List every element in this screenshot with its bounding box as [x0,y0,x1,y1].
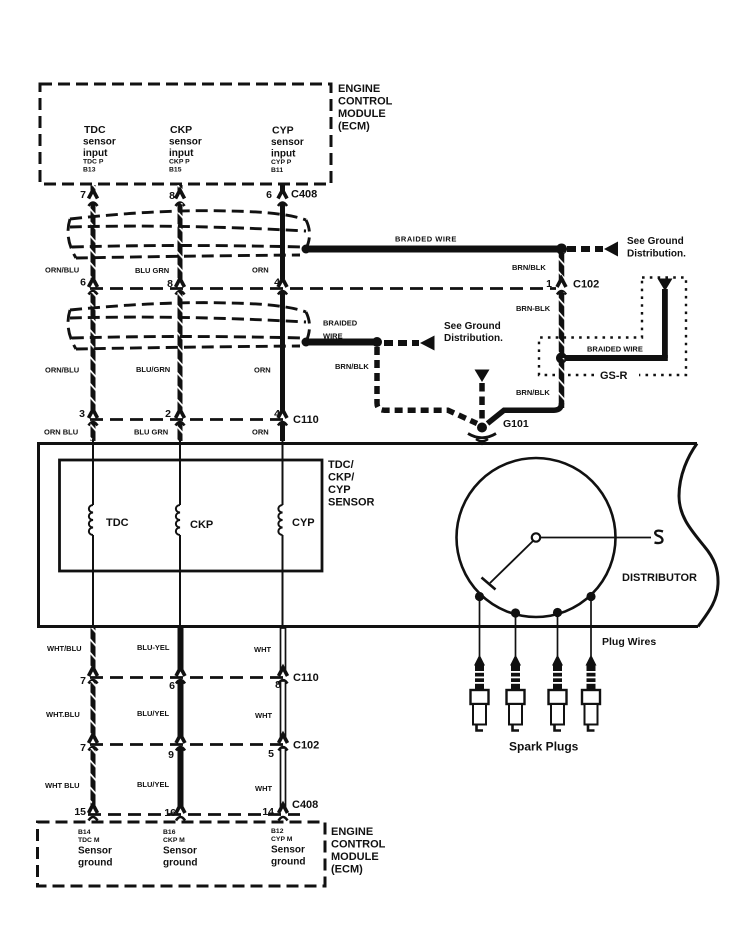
svg-text:C408: C408 [291,189,317,201]
ECM module box (top) [40,84,331,184]
ECM (bottom) name label [331,826,386,876]
pin 8 (C408 top) [169,190,175,202]
connector junction TDC wire at row2 [89,279,98,295]
connector C408 (bottom) label [292,799,318,811]
GS-R label [600,370,628,382]
distributor circle [457,458,616,617]
svg-text:Sensor: Sensor [163,846,197,857]
sensor assembly outer box with torn right edge [39,444,719,627]
pin 5 (C102 bottom) [268,748,274,760]
wire WHT C102 to C408 [281,748,286,806]
TDC coil label [106,517,129,529]
svg-text:(ECM): (ECM) [331,864,363,876]
plug wire 4 [590,599,592,656]
svg-text:C110: C110 [293,672,319,684]
svg-text:14: 14 [262,806,274,818]
svg-text:BLU/GRN: BLU/GRN [136,365,170,374]
svg-text:B12: B12 [271,828,284,835]
pin 1 (C102) [546,278,552,290]
svg-text:CKP: CKP [190,519,213,531]
connector C102 label [573,279,599,291]
svg-text:sensor: sensor [169,137,202,148]
wire color label WHT (row 2) [255,711,272,720]
Plug Wires label [602,636,656,648]
svg-text:C110: C110 [293,414,319,426]
dashed stub arrow to ground [479,383,485,425]
wire color label BRN-BLK (below C102) [516,304,551,313]
BRAIDED WIRE label (GS-R) [587,345,643,354]
wire color label WHT BLU (row 3) [45,781,80,790]
wire BLU/YEL C102 to C408 [178,748,184,806]
svg-text:3: 3 [79,408,85,420]
svg-text:CYP P: CYP P [271,159,292,166]
svg-text:TDC M: TDC M [78,837,100,844]
arrow to ground distribution 2 [420,336,435,351]
svg-text:CYP: CYP [272,125,294,137]
distributor cap terminal dot 1 [475,592,484,601]
shield2 junction dot [302,338,311,347]
ground G101 symbol [468,423,496,445]
wire CYP row2 to C110 [280,292,285,411]
wire CKP stub below ECM [178,185,183,191]
wire CYP into sensor assembly [280,423,285,441]
wire color label WHT (row 1) [254,645,271,654]
pin 6 (C110 bottom) [169,680,175,692]
rotor pickup tick [482,578,496,590]
pin 8 (C110 bottom) [275,679,281,691]
shield 2 (braided shield around sensor wires) [68,303,310,349]
svg-text:Distribution.: Distribution. [627,249,686,260]
connector junction BRN/BLK at C102 [557,279,566,295]
svg-text:TDC/: TDC/ [328,459,354,471]
svg-text:WHT.BLU: WHT.BLU [46,710,80,719]
braided wire GS-R horizontal [565,355,668,361]
svg-text:6: 6 [80,277,86,289]
svg-text:ORN: ORN [252,428,269,437]
svg-text:7: 7 [80,675,86,687]
arrow to ground distribution 1 [604,242,618,257]
wire CKP row2 to C110 [178,292,183,411]
wire color label ORN (row 2) [254,366,271,375]
CKP coil label [190,519,213,531]
svg-text:BRN/BLK: BRN/BLK [335,362,369,371]
TDC/CKP/CYP sensor inner box [60,460,323,571]
connector line C102 (dashed, row 2) [90,287,556,290]
connector junction WHT at C408 bottom [279,805,288,821]
svg-text:DISTRIBUTOR: DISTRIBUTOR [622,572,697,584]
svg-text:BLU/YEL: BLU/YEL [137,780,170,789]
connector junction TDC wire at C110 top [89,410,98,426]
svg-text:B16: B16 [163,829,176,836]
svg-text:CKP M: CKP M [163,837,185,844]
connector junction WHT/BLU at C110 bottom [89,668,98,684]
svg-text:BRN/BLK: BRN/BLK [516,388,550,397]
svg-text:CKP: CKP [170,124,192,136]
wire BLU/YEL below sensor box [178,628,184,669]
svg-text:WIRE: WIRE [323,332,343,341]
Spark Plugs label [509,740,579,754]
braided wire GS-R vertical [662,289,668,358]
dashed wire stub to ground distribution arrow 1 [567,246,603,252]
CYP sensor input pin CYP P B11 label [271,125,304,175]
wire BRN/BLK from C102 down to GS-R tap [559,292,565,356]
connector junction WHT at C102 bottom [279,735,288,751]
connector line C110 bottom (dashed) [90,676,289,679]
See Ground Distribution label 1 [627,236,686,260]
svg-text:input: input [83,148,108,159]
svg-text:ORN BLU: ORN BLU [44,428,78,437]
shield1 junction dot [302,245,311,254]
svg-text:B14: B14 [78,829,91,836]
connector C110 (bottom) label [293,672,319,684]
junction dot braided wire 1 [556,244,567,255]
wire color label BRN/BLK (left branch) [335,362,369,371]
connector junction CKP wire at C110 top [176,410,185,426]
svg-text:B15: B15 [169,167,182,174]
svg-text:Sensor: Sensor [271,845,305,856]
svg-text:C102: C102 [573,279,599,291]
svg-text:CONTROL: CONTROL [331,839,386,851]
svg-text:Distribution.: Distribution. [444,333,503,344]
wire WHT/BLU C102 to C408 [91,748,96,806]
svg-text:See Ground: See Ground [627,236,684,247]
pin 9 (C102 bottom) [168,749,174,761]
svg-text:MODULE: MODULE [338,108,386,120]
svg-text:CKP/: CKP/ [328,472,354,484]
pin 7 (C110 bottom) [80,675,86,687]
plug wire 1 [479,599,481,656]
wire color label ORN/BLU (row 2) [45,366,79,375]
svg-text:C102: C102 [293,740,319,752]
connector junction CKP wire at row2 [176,279,185,295]
connector junction CYP at C408 [278,190,287,206]
TDC sensor input pin TDC P B13 label [83,124,116,174]
svg-text:input: input [169,148,194,159]
svg-text:CYP: CYP [328,484,351,496]
svg-text:WHT: WHT [254,645,271,654]
distributor cap terminal dot 4 [586,592,595,601]
wire BRN/BLK right elbow to ground [488,403,562,424]
spark plug 4 [582,655,600,731]
pin 7 (C102 bottom) [80,742,86,754]
wire color label ORN (below C110) [252,428,269,437]
svg-text:6: 6 [169,680,175,692]
svg-text:7: 7 [80,189,86,201]
G101 label [503,418,529,430]
wire color label BLU/YEL (row 2) [137,709,170,718]
svg-text:B11: B11 [271,167,283,174]
svg-text:CKP P: CKP P [169,159,190,166]
wire color label ORN (row 1) [252,266,269,275]
distributor rotor arm (pickup) [490,541,534,584]
wire color label BRN/BLK (above C102) [512,263,546,272]
svg-text:15: 15 [74,806,86,818]
connector junction CKP at C408 [176,190,185,206]
svg-text:input: input [271,149,296,160]
svg-text:ORN: ORN [254,366,271,375]
pin B16 CKP M sensor ground label [163,829,197,869]
svg-text:B13: B13 [83,167,96,174]
svg-text:6: 6 [266,189,272,201]
svg-text:ORN/BLU: ORN/BLU [45,366,79,375]
svg-text:Spark Plugs: Spark Plugs [509,740,579,754]
distributor cap terminal dot 2 [511,608,520,617]
svg-text:ENGINE: ENGINE [338,83,380,95]
svg-text:See Ground: See Ground [444,321,501,332]
wire CYP C408 down [280,203,285,279]
distributor rotor pivot [532,533,540,541]
svg-text:SENSOR: SENSOR [328,497,375,509]
coil TDC [89,505,93,535]
pin 2 (C110 top row) [165,408,171,420]
svg-text:ENGINE: ENGINE [331,826,373,838]
wire TDC C408 to shield1 exit [91,203,96,279]
CKP sensor input pin CKP P B15 label [169,124,202,174]
wire color label BLU/YEL (row 3) [137,780,170,789]
BRAIDED WIRE label 1 [395,235,457,244]
svg-text:TDC: TDC [106,517,129,529]
pin 6 (C408 top) [266,189,272,201]
connector junction CYP wire at row2 [278,279,287,295]
wire BRN/BLK from braided1 down to C102 [559,252,565,280]
svg-text:BLU-YEL: BLU-YEL [137,643,170,652]
svg-text:CYP M: CYP M [271,836,293,843]
svg-text:TDC P: TDC P [83,159,104,166]
spark plug 3 [549,655,567,731]
wire TDC into sensor assembly [91,423,96,441]
wire TDC row2 to C110 [91,292,96,411]
wire CKP thin inside box [179,439,181,505]
wire CYP thin below coil [282,535,284,628]
DISTRIBUTOR label [622,572,697,584]
svg-text:WHT: WHT [255,784,272,793]
svg-text:sensor: sensor [271,137,304,148]
wire WHT/BLU C110 to C102 [91,681,96,736]
connector C102 (bottom) label [293,740,319,752]
spark plug 1 [471,655,489,731]
svg-text:8: 8 [169,190,175,202]
CYP coil label [292,517,315,529]
svg-text:WHT/BLU: WHT/BLU [47,644,82,653]
wire CKP C408 down [178,203,183,279]
pin B14 TDC M sensor ground label [78,829,112,869]
wire TDC stub below ECM [91,185,96,191]
pin 4 (C110 top row) [274,408,280,420]
svg-text:C408: C408 [292,799,318,811]
wire color label ORN BLU (below C110) [44,428,78,437]
svg-text:BLU GRN: BLU GRN [135,266,169,275]
svg-text:7: 7 [80,742,86,754]
svg-text:ORN: ORN [252,266,269,275]
svg-text:sensor: sensor [83,137,116,148]
connector junction WHT/BLU at C408 bottom [89,805,98,821]
connector C110 (top) label [293,414,319,426]
pin B12 CYP M sensor ground label [271,828,305,868]
pin 6 (C102 row) [80,277,86,289]
svg-text:BLU GRN: BLU GRN [134,428,168,437]
shield 1 (braided shield around sensor wires) [68,211,310,258]
dashed wire stub to ground distribution arrow 2 [384,340,419,346]
coil CKP [176,505,180,535]
pin 16 (C408 bottom) [164,807,176,819]
wire color label BRN/BLK (lower right) [516,388,550,397]
arrow into ground G101 [475,370,490,383]
svg-text:(ECM): (ECM) [338,121,370,133]
svg-text:CONTROL: CONTROL [338,96,393,108]
svg-text:ground: ground [78,858,112,869]
wire color label WHT/BLU (row 1) [47,644,82,653]
svg-text:5: 5 [268,748,274,760]
distributor cap terminal dot 3 [553,608,562,617]
svg-text:TDC: TDC [84,124,106,136]
arrow from ground distribution (GS-R) [658,279,673,292]
connector junction TDC at C408 [89,190,98,206]
wire BRN/BLK from GS-R tap down to elbow [559,358,565,408]
braided wire 1 (shield1 to C102 ground wire) [306,246,562,253]
wire color label BLU GRN (below C110) [134,428,168,437]
svg-text:ground: ground [163,858,197,869]
svg-text:BRN/BLK: BRN/BLK [512,263,546,272]
svg-text:1: 1 [546,278,552,290]
braided wire 2 (shield2 to ground) [306,339,380,346]
wire CKP thin below coil [179,535,181,628]
wire TDC thin below coil [92,535,94,628]
rotor tip S glyph [655,531,664,543]
junction dot GS-R tap [556,353,567,364]
svg-text:ORN/BLU: ORN/BLU [45,266,79,275]
connector line C408 bottom (dashed) [88,813,300,816]
connector line C110 top (dashed) [90,418,289,421]
wire color label ORN/BLU (row 1) [45,266,79,275]
junction dot braided wire 2 [372,337,382,347]
wire BRN/BLK dashed from dot down to ground (left branch) [377,347,477,424]
connector junction CYP wire at C110 top [278,410,287,426]
ECM (top) name label [338,83,393,133]
svg-text:9: 9 [168,749,174,761]
wire TDC thin inside box [92,439,94,505]
svg-text:ground: ground [271,857,305,868]
pin 7 (C408 top) [80,189,86,201]
BRAIDED WIRE label 2 [323,319,358,341]
wire color label BLU GRN (row 1) [135,266,169,275]
distributor rotor arm to coil tower [540,537,651,539]
wire color label WHT (row 3) [255,784,272,793]
plug wire 3 [557,615,559,656]
connector junction BLU/YEL at C102 bottom [176,735,185,751]
wire color label WHT.BLU (row 2) [46,710,80,719]
svg-text:BRAIDED WIRE: BRAIDED WIRE [395,235,457,244]
wire BLU/YEL C110 to C102 [178,681,184,736]
svg-text:Plug Wires: Plug Wires [602,636,656,648]
svg-text:GS-R: GS-R [600,370,628,382]
connector junction BLU/YEL at C408 bottom [176,805,185,821]
wire WHT C110 to C102 [281,681,286,736]
wire color label BLU/GRN (row 2) [136,365,170,374]
wire WHT/BLU below sensor box [91,628,96,669]
wire CYP stub below ECM [280,185,285,191]
wire CKP into sensor assembly [178,423,183,441]
pin 14 (C408 bottom) [262,806,274,818]
coil CYP [278,505,282,535]
svg-text:WHT: WHT [255,711,272,720]
wire color label BLU-YEL (row 1) [137,643,170,652]
svg-text:BLU/YEL: BLU/YEL [137,709,170,718]
ECM module box (bottom) [38,822,326,886]
pin 15 (C408 bottom) [74,806,86,818]
GS-R dotted option box [539,278,686,376]
connector line C102 bottom (dashed) [90,743,289,746]
svg-text:Sensor: Sensor [78,846,112,857]
See Ground Distribution label 2 [444,321,503,344]
connector C408 (top) label [291,189,317,201]
pin 4 (C102 row) [274,277,280,289]
svg-text:MODULE: MODULE [331,851,379,863]
spark plug 2 [507,655,525,731]
svg-text:16: 16 [164,807,176,819]
wire CYP thin inside box [282,439,284,505]
svg-text:BRN-BLK: BRN-BLK [516,304,551,313]
connector junction WHT/BLU at C102 bottom [89,735,98,751]
connector junction WHT at C110 bottom [279,668,288,684]
pin 8 (C102 row) [167,278,173,290]
TDC/CKP/CYP SENSOR label [328,459,375,509]
svg-text:BRAIDED: BRAIDED [323,319,358,328]
svg-text:BRAIDED WIRE: BRAIDED WIRE [587,345,643,354]
svg-text:WHT BLU: WHT BLU [45,781,80,790]
pin 3 (C110 top row) [79,408,85,420]
wire WHT below sensor box [281,628,286,669]
connector junction BLU/YEL at C110 bottom [176,668,185,684]
svg-text:G101: G101 [503,418,529,430]
svg-text:CYP: CYP [292,517,315,529]
plug wire 2 [515,616,517,656]
